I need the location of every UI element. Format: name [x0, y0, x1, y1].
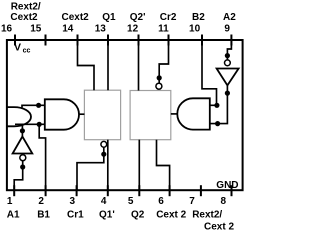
- pin 11 tick: [168, 35, 170, 46]
- inverter U2 triangle (points down): [217, 69, 239, 86]
- pin 15 tick: [45, 35, 47, 46]
- svg-text:cc: cc: [23, 48, 31, 55]
- node dot AND1 top input: [36, 103, 41, 108]
- wire B1 from pin2 up to AND1 bottom input: [39, 124, 45, 190]
- node dot Cr1: [101, 152, 106, 157]
- clipped gate half-oval at left edge: [7, 107, 31, 126]
- AND1 output stub to block1: [79, 113, 84, 115]
- pin 6 tick: [169, 185, 171, 196]
- AND gate 1 (points right): [45, 99, 79, 129]
- AND gate 2 (points left): [177, 98, 210, 129]
- svg-text:2: 2: [38, 196, 44, 207]
- node dot B2 input: [214, 103, 219, 108]
- node dot AND2 bottom input: [215, 121, 220, 126]
- svg-text:16: 16: [1, 23, 13, 34]
- pin 12 tick: [138, 35, 140, 46]
- svg-text:A2: A2: [223, 12, 236, 23]
- node dot on Cr2 wire: [157, 75, 162, 80]
- bubble inverter U2 input: [225, 60, 231, 66]
- wire pin1 A1 to inverter U1: [14, 161, 23, 191]
- svg-text:Cext 2: Cext 2: [204, 222, 234, 233]
- svg-text:GND: GND: [216, 180, 238, 191]
- wire pin10 B2 jog to AND2 top input: [202, 41, 217, 105]
- pin 3 tick: [76, 185, 78, 196]
- svg-text:5: 5: [128, 196, 134, 207]
- pin 13 tick: [107, 35, 109, 46]
- svg-text:B1: B1: [37, 210, 50, 221]
- pin 14 tick: [77, 35, 79, 46]
- bubble inverter U1 input: [20, 155, 26, 161]
- svg-text:13: 13: [95, 23, 107, 34]
- IC package outline: [7, 40, 243, 190]
- AND1 bottom input wire: [15, 123, 45, 125]
- svg-text:Q1': Q1': [99, 210, 115, 221]
- wire pin11 Cr2 jog to block2 top: [159, 41, 168, 83]
- wire Cr1 jog to pin3: [77, 147, 104, 190]
- pin 10 tick: [201, 35, 203, 46]
- wire pin13 Q1 to block1 top: [107, 41, 109, 90]
- svg-text:Cext2: Cext2: [61, 12, 89, 23]
- svg-text:Q2': Q2': [130, 12, 146, 23]
- node dot AND1 bottom input: [37, 122, 42, 127]
- wire inverter U2 output down to AND2 bottom input: [210, 85, 228, 123]
- bubble Cr1 at block1 bottom: [101, 141, 107, 147]
- svg-text:8: 8: [221, 196, 227, 207]
- svg-text:Cext 2: Cext 2: [156, 210, 186, 221]
- svg-text:Q1: Q1: [102, 12, 116, 23]
- svg-text:15: 15: [30, 23, 42, 34]
- wire pin12 Q2' to block2 top: [138, 41, 140, 91]
- node dot A2: [225, 53, 230, 58]
- pin 8 tick: [231, 185, 233, 196]
- svg-text:9: 9: [224, 23, 230, 34]
- pin 9 tick: [230, 35, 232, 46]
- wire block1 bottom to pin4 Q1': [107, 140, 109, 190]
- node dot U1 output: [20, 128, 25, 133]
- pin 1 tick: [13, 185, 15, 196]
- AND2 output stub to block2: [171, 113, 178, 115]
- svg-text:4: 4: [101, 196, 107, 207]
- svg-text:Rext2/: Rext2/: [192, 210, 222, 221]
- wire block2 bottom to pin5 Q2: [138, 140, 140, 190]
- svg-text:14: 14: [62, 23, 74, 34]
- pin 5 tick: [138, 185, 140, 196]
- AND1 top input wire: [22, 105, 45, 107]
- svg-text:Rext2/: Rext2/: [11, 2, 41, 13]
- svg-text:A1: A1: [7, 210, 20, 221]
- wire pin9 A2 jog to inverter: [227, 41, 231, 60]
- pin 2 tick: [45, 185, 47, 196]
- bubble Cr2 at block2 top: [156, 83, 162, 89]
- svg-text:12: 12: [127, 23, 139, 34]
- svg-text:1: 1: [7, 196, 13, 207]
- svg-text:7: 7: [189, 196, 195, 207]
- svg-text:V: V: [14, 42, 21, 54]
- svg-text:10: 10: [189, 23, 201, 34]
- pin 4 tick: [107, 185, 109, 196]
- pin 7 tick: [200, 185, 202, 196]
- one-shot block 2 (right gray rect): [130, 91, 171, 140]
- svg-text:11: 11: [158, 23, 169, 34]
- one-shot block 1 (left gray rect): [84, 90, 120, 140]
- svg-text:6: 6: [158, 196, 164, 207]
- node dot U2 output: [225, 91, 230, 96]
- inverter U1 triangle (points up): [13, 137, 33, 154]
- pin 16 tick: [14, 35, 16, 46]
- svg-text:Cr2: Cr2: [160, 12, 177, 23]
- svg-text:Cr1: Cr1: [67, 210, 84, 221]
- svg-text:3: 3: [70, 196, 76, 207]
- wire pin14 Cext to block1 top: [78, 41, 95, 90]
- svg-text:B2: B2: [192, 12, 205, 23]
- svg-text:Q2: Q2: [131, 210, 145, 221]
- wire inverter U1 output up to oval: [21, 125, 23, 137]
- node dot A1: [20, 164, 25, 169]
- svg-text:Cext2: Cext2: [10, 12, 38, 23]
- wire block2 bottom Cext jog to pin6: [157, 140, 170, 190]
